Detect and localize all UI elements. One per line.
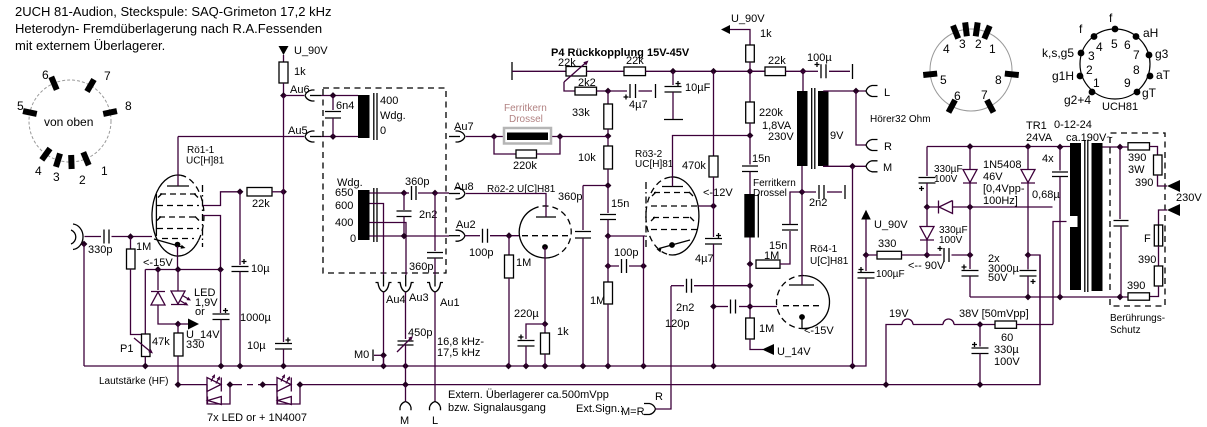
svg-text:ca.190V~: ca.190V~ <box>1066 132 1113 144</box>
LED chain bus wire <box>178 255 1040 385</box>
svg-text:Rö1-1: Rö1-1 <box>187 145 215 156</box>
node Au2 grid <box>506 232 513 239</box>
svg-text:L: L <box>884 87 890 99</box>
node g2/1000u <box>217 266 224 273</box>
node M <box>849 163 856 170</box>
svg-text:L: L <box>432 415 438 427</box>
wire anode Rö1 to Au5 line <box>177 137 179 187</box>
svg-text:33k: 33k <box>572 107 590 119</box>
bus junction x=608 <box>605 363 612 370</box>
svg-text:390: 390 <box>1127 280 1145 292</box>
svg-text:100p: 100p <box>469 247 493 259</box>
capacitor 3000µ first <box>969 255 971 269</box>
svg-text:330: 330 <box>878 238 896 250</box>
capacitor 100p (Au2 grid) <box>465 235 480 237</box>
svg-text:400: 400 <box>380 95 398 107</box>
wire 330p to grid node <box>112 236 153 238</box>
svg-text:TR1: TR1 <box>1026 120 1047 132</box>
U_90V arrow top <box>721 25 730 34</box>
tube Rö4-1 U[C]H81 envelope <box>801 276 829 329</box>
svg-text:mit externem Überlagerer.: mit externem Überlagerer. <box>15 38 165 53</box>
svg-text:1k: 1k <box>294 66 306 78</box>
svg-text:M: M <box>883 162 892 174</box>
230V arrow top <box>1167 180 1180 192</box>
svg-text:10µF: 10µF <box>685 82 711 94</box>
svg-text:220k: 220k <box>513 160 537 172</box>
wire 360p node to 10k node <box>583 185 608 187</box>
svg-text:3: 3 <box>959 37 966 51</box>
node 100p left <box>605 263 612 270</box>
U_90V output arrow <box>861 210 871 220</box>
svg-text:100V: 100V <box>939 235 963 246</box>
svg-text:F: F <box>1144 233 1151 245</box>
svg-text:4: 4 <box>35 164 42 178</box>
node 3000µ2 top <box>1025 252 1032 259</box>
svg-text:6: 6 <box>1124 38 1131 52</box>
svg-text:bzw. Signalausgang: bzw. Signalausgang <box>448 402 546 414</box>
svg-text:U_14V: U_14V <box>777 346 811 358</box>
bus junction x=240 <box>237 363 244 370</box>
svg-text:Heterodyn- Fremdüberlagerung n: Heterodyn- Fremdüberlagerung nach R.A.Fe… <box>15 21 322 36</box>
svg-text:100µF: 100µF <box>876 269 905 280</box>
svg-text:gT: gT <box>1142 86 1157 100</box>
grid row Rö4 <box>783 305 820 307</box>
diode D1 <box>967 143 974 150</box>
capacitor 360p to Au8 <box>404 192 409 194</box>
svg-text:1k: 1k <box>760 28 772 40</box>
svg-text:g3: g3 <box>1155 47 1169 61</box>
wire L to R <box>856 91 866 145</box>
svg-text:1M: 1M <box>590 295 605 307</box>
wire 22k to nodes <box>646 70 766 72</box>
anode bar Rö2 <box>536 216 556 218</box>
node 120p left <box>710 303 717 310</box>
svg-text:Wdg.: Wdg. <box>380 110 406 122</box>
svg-text:7: 7 <box>981 88 988 102</box>
antenna pickup coil <box>71 224 83 250</box>
bus junction x=713.5 <box>710 363 717 370</box>
svg-text:Au3: Au3 <box>409 292 429 304</box>
winding top (400 Wdg) <box>358 95 370 138</box>
svg-text:9V: 9V <box>830 130 844 142</box>
svg-text:M=R: M=R <box>621 406 645 418</box>
ground bus wire <box>84 281 866 366</box>
jack R (Hörer) <box>866 140 878 151</box>
bus junction x=283.5 <box>280 363 287 370</box>
svg-text:or: or <box>195 306 205 318</box>
bus junction x=852.5 <box>849 363 856 370</box>
TR1 primary winding <box>1070 143 1081 290</box>
svg-text:9: 9 <box>1124 76 1131 90</box>
svg-text:U_90V: U_90V <box>874 219 908 231</box>
svg-text:6: 6 <box>42 68 49 82</box>
capacitor 10µF with chassis bar <box>672 71 674 85</box>
coil connector top view (von oben) <box>29 80 111 162</box>
resistor 22k (third) <box>750 70 765 72</box>
diode (protection) <box>157 270 159 291</box>
svg-text:6: 6 <box>954 89 961 103</box>
svg-text:<-12V: <-12V <box>703 187 733 199</box>
resistor 330 (filter) <box>877 251 902 259</box>
node bridge right <box>967 252 974 259</box>
capacitor 330µ 100V <box>979 325 981 347</box>
svg-text:22k: 22k <box>558 57 576 69</box>
jack M output <box>400 402 411 411</box>
svg-text:8: 8 <box>125 99 132 113</box>
capacitor across secondary <box>1119 147 1121 219</box>
capacitor 6n4 <box>332 96 334 111</box>
TR1 tap notch <box>1067 216 1078 227</box>
wire pot right to 22k <box>587 70 625 72</box>
node 1M left <box>747 261 754 268</box>
node 100p right <box>640 263 647 270</box>
wire antenna down to ground bus <box>83 244 85 366</box>
svg-text:10µ: 10µ <box>251 263 270 275</box>
jack Ext.Sign <box>644 404 656 415</box>
svg-text:360p: 360p <box>405 176 429 188</box>
node Rö4 anode / 2n2 <box>799 189 806 196</box>
svg-text:0-12-24: 0-12-24 <box>1054 119 1092 131</box>
wire Rö3 g to 470k node <box>699 205 714 207</box>
node drossel right <box>557 133 564 140</box>
svg-text:1M: 1M <box>516 257 531 269</box>
svg-text:22k: 22k <box>626 55 644 67</box>
svg-text:22k: 22k <box>252 198 270 210</box>
node drossel left <box>491 133 498 140</box>
svg-text:2n2: 2n2 <box>676 302 694 314</box>
svg-text:360p: 360p <box>409 261 433 273</box>
grid rows Rö1 <box>160 193 196 195</box>
node 2k2/33k <box>605 88 612 95</box>
node U90V/330 <box>863 252 870 259</box>
svg-text:M0: M0 <box>354 349 369 361</box>
svg-text:390: 390 <box>1138 254 1156 266</box>
svg-text:Au6: Au6 <box>290 84 310 96</box>
tube Rö1-1 UC[H]81 envelope <box>152 175 199 256</box>
LED 1,9V <box>177 270 179 292</box>
svg-text:4x: 4x <box>1042 153 1054 165</box>
svg-text:330p: 330p <box>88 244 112 256</box>
svg-text:Au7: Au7 <box>454 121 474 133</box>
resistor 1M (Au2) <box>508 236 510 255</box>
resistor 330 <box>177 324 179 333</box>
wire Au8 to Rö2 anode <box>466 194 546 218</box>
node 450p bus crossings <box>402 381 409 388</box>
node lower bus psu <box>883 381 890 388</box>
svg-text:2UCH 81-Audion, Steckspule: SA: 2UCH 81-Audion, Steckspule: SAQ-Grimeton… <box>15 4 331 19</box>
svg-text:U_90V: U_90V <box>294 45 328 57</box>
terminal bar 2n2 <box>844 185 846 199</box>
wire Au6 to coupling winding <box>321 95 358 97</box>
wire Ext.Sign to R line <box>656 286 672 409</box>
cathode Rö2 <box>542 244 548 250</box>
capacitor 2n2 (650-0) <box>403 193 405 210</box>
svg-text:0: 0 <box>380 125 386 137</box>
resistor 220k <box>749 71 751 102</box>
node 360p/Au1 <box>432 190 439 197</box>
grid rows Rö3 <box>654 192 691 194</box>
resistor 1M (horizontal) <box>756 260 780 268</box>
resistor 33k <box>607 91 609 104</box>
svg-text:1: 1 <box>101 164 108 178</box>
svg-text:Au1: Au1 <box>440 297 460 309</box>
resistor 1k (cathode) <box>544 324 546 333</box>
wire Au1 down to L <box>434 292 436 402</box>
node LED bottom <box>175 321 182 328</box>
svg-text:19V: 19V <box>889 308 909 320</box>
capacitor 15n (grid col) <box>607 186 609 214</box>
wire x750 down <box>749 264 751 318</box>
node 120p right <box>747 303 754 310</box>
capacitor 4µ7 (Rö3 g) <box>713 206 715 237</box>
svg-text:2k2: 2k2 <box>578 77 596 89</box>
jack Au8 <box>449 193 460 195</box>
anode bar Rö4 <box>789 284 814 286</box>
svg-text:15n: 15n <box>752 153 770 165</box>
node 100µ <box>800 68 807 75</box>
wire Rö1 plate2 to 22k <box>203 192 240 206</box>
resistor 1M grid leak <box>130 237 132 249</box>
PSU top rail <box>927 146 1070 148</box>
tube Rö3-2 UC[H]81 envelope <box>669 177 699 255</box>
svg-text:UC[H]81: UC[H]81 <box>635 159 674 170</box>
node LED top <box>175 266 182 273</box>
jack Au7 <box>449 136 460 138</box>
svg-text:7x LED or + 1N4007: 7x LED or + 1N4007 <box>207 412 307 424</box>
capacitor 15n (anode) <box>749 136 751 165</box>
svg-text:Extern. Überlagerer ca.500mVp: Extern. Überlagerer ca.500mVpp <box>448 389 609 401</box>
node bridge left <box>924 252 931 259</box>
resistor 220k (parallel) <box>494 137 516 155</box>
bus junction x=383.5 <box>380 363 387 370</box>
resistor 10k <box>607 136 609 146</box>
svg-text:24VA: 24VA <box>1026 132 1053 144</box>
node D1 bottom <box>967 204 974 211</box>
svg-text:[0,4Vpp-: [0,4Vpp- <box>983 183 1025 195</box>
Ferritkern Drossel highlighted <box>504 128 551 144</box>
svg-text:4µ7: 4µ7 <box>695 253 714 265</box>
svg-text:UCH81: UCH81 <box>1102 101 1138 113</box>
svg-text:400: 400 <box>335 217 353 229</box>
resistor 60 <box>995 321 1017 328</box>
wire 1M to 15n stub <box>780 231 790 264</box>
wire to ground drop <box>1028 255 1040 385</box>
svg-text:7: 7 <box>1133 48 1140 62</box>
wire secondary to L jack <box>823 90 866 92</box>
wire down <box>607 236 609 282</box>
node cathode RC <box>542 321 549 328</box>
svg-text:aT: aT <box>1156 68 1171 82</box>
resistor 470k <box>713 71 715 156</box>
svg-text:1M: 1M <box>136 241 151 253</box>
node rail <box>1025 294 1032 301</box>
wire to Au8 <box>435 192 449 194</box>
svg-text:Ferritkern: Ferritkern <box>504 103 547 114</box>
LED pair 2 <box>259 381 266 388</box>
TR1 core <box>1085 140 1088 292</box>
anode bar Rö3 <box>662 186 683 188</box>
resistor 1M (x608) <box>604 282 613 304</box>
node diode top <box>155 266 162 273</box>
230V arrow bottom <box>1167 204 1180 216</box>
svg-text:0: 0 <box>350 233 356 245</box>
terminal bar 100µ <box>852 64 854 79</box>
plug-in coil dashed box <box>323 88 446 273</box>
svg-text:Drossel: Drossel <box>509 114 543 125</box>
svg-text:Schutz: Schutz <box>1110 325 1141 336</box>
capacitor 1000µ <box>220 270 222 314</box>
node 10k bottom <box>605 182 612 189</box>
wire U90V node <box>865 220 867 256</box>
svg-text:g2+4: g2+4 <box>1064 93 1091 107</box>
cathode Rö3 <box>659 240 690 249</box>
trimmer arrow <box>397 338 411 352</box>
capacitor 10µ (22k left) <box>239 192 241 265</box>
svg-text:von oben: von oben <box>44 115 93 129</box>
output transformer 230V/9V windings <box>797 91 808 166</box>
node LED-bus left <box>175 381 182 388</box>
svg-text:1000µ: 1000µ <box>240 312 271 324</box>
bus junction x=526 <box>523 363 530 370</box>
svg-text:38V [50mVpp]: 38V [50mVpp] <box>959 308 1029 320</box>
wire to Rö3 cathode side <box>608 235 645 237</box>
resistor 390 (vertical bottom) <box>1158 246 1160 266</box>
jack Au6 <box>284 95 305 97</box>
potentiometer P1 47k <box>144 270 146 335</box>
U_90V rail down / capacitor 10µ second <box>283 192 285 342</box>
svg-text:2: 2 <box>1086 63 1093 77</box>
svg-text:Au8: Au8 <box>454 181 474 193</box>
capacitor (90V coupling) <box>944 248 949 262</box>
wire Rö3 anode to 220k node <box>673 136 751 187</box>
wire Au5 to Rö1 anode <box>178 136 304 138</box>
trimmer 450p <box>398 341 414 345</box>
svg-text:1M: 1M <box>764 250 779 262</box>
jack Au2 <box>449 235 460 237</box>
resistor 2k2 <box>575 87 597 95</box>
svg-text:390: 390 <box>1135 177 1153 189</box>
svg-text:g1H: g1H <box>1052 69 1074 83</box>
U_14V arrow (Rö4) <box>750 339 763 350</box>
bus junction x=405.5 <box>402 363 409 370</box>
svg-text:100V: 100V <box>994 356 1020 368</box>
potentiometer P4 22k <box>566 67 587 77</box>
svg-text:50V: 50V <box>988 272 1008 284</box>
bus junction x=583 <box>580 363 587 370</box>
svg-text:330: 330 <box>186 339 204 351</box>
svg-text:Lautstärke (HF): Lautstärke (HF) <box>99 376 168 387</box>
svg-text:47k: 47k <box>152 336 170 348</box>
node Au6 <box>280 92 287 99</box>
wire Rö4 anode up to transformer <box>801 192 803 285</box>
svg-text:360p: 360p <box>558 191 582 203</box>
coil connector mirrored view <box>930 29 1012 111</box>
node 22k left <box>237 188 244 195</box>
tube Rö2-2 U[C]H81 <box>519 209 559 258</box>
UCH81 pinout diagram <box>1080 29 1150 99</box>
capacitor 330p <box>104 230 109 244</box>
svg-text:120p: 120p <box>665 318 689 330</box>
svg-text:<-15V: <-15V <box>804 325 834 337</box>
node -12V <box>710 203 717 210</box>
resistor 22k <box>247 188 272 197</box>
node diode row left <box>924 204 931 211</box>
svg-text:3: 3 <box>1088 49 1095 63</box>
svg-text:220µ: 220µ <box>514 308 539 320</box>
jack L output <box>430 402 441 411</box>
grid line Rö2 <box>522 235 570 237</box>
svg-text:3: 3 <box>53 170 60 184</box>
capacitor 2n2 (R input) <box>694 285 750 287</box>
svg-text:8: 8 <box>995 73 1002 87</box>
svg-text:3W: 3W <box>1128 164 1145 176</box>
svg-text:Rö4-1: Rö4-1 <box>810 244 838 255</box>
svg-text:Au2: Au2 <box>456 219 476 231</box>
node 6n4 top <box>330 92 337 99</box>
wire Rö1 g2 to -15V rail <box>203 216 221 270</box>
resistor 22k (second) <box>624 67 646 76</box>
svg-text:7: 7 <box>104 69 111 83</box>
svg-text:17,5 kHz: 17,5 kHz <box>437 347 480 359</box>
capacitor 330µF first <box>926 147 928 177</box>
resistor 1k <box>283 55 285 62</box>
node 33k bottom <box>605 133 612 140</box>
svg-text:U[C]H81: U[C]H81 <box>810 256 849 267</box>
jack Au3 <box>405 275 407 287</box>
M0 terminal <box>372 350 374 362</box>
svg-text:390: 390 <box>1128 152 1146 164</box>
tap 0 wire <box>370 235 450 237</box>
node 6n4 bottom <box>330 133 337 140</box>
svg-text:Au4: Au4 <box>386 294 406 306</box>
capacitor 100p (Rö3) <box>622 259 627 273</box>
bus junction x=221 <box>218 363 225 370</box>
svg-text:4µ7: 4µ7 <box>629 99 648 111</box>
winding bottom (650/600/400/0) <box>358 190 370 240</box>
node TR1 primary top <box>1057 144 1064 151</box>
svg-text:100V: 100V <box>934 174 958 185</box>
node antenna <box>81 241 88 248</box>
bus junction x=545 <box>542 363 549 370</box>
svg-text:Au5: Au5 <box>288 125 308 137</box>
node 330µ top <box>977 321 984 328</box>
anode bar Rö1 <box>167 185 189 187</box>
bus junction x=643.5 <box>640 363 647 370</box>
svg-text:0,68µ: 0,68µ <box>1032 189 1060 201</box>
TR1 secondary winding <box>1092 143 1103 291</box>
node 22k right <box>280 188 287 195</box>
svg-text:Drossel: Drossel <box>753 188 787 199</box>
jack M (Hörer) <box>866 161 878 172</box>
jack Au4 <box>383 275 385 287</box>
node tap650 <box>401 190 408 197</box>
svg-text:600: 600 <box>335 200 353 212</box>
grid1 internal connection Rö1 <box>155 194 157 236</box>
svg-text:230V: 230V <box>768 131 794 143</box>
svg-text:Hörer32 Ohm: Hörer32 Ohm <box>870 114 931 125</box>
svg-text:1M: 1M <box>759 323 774 335</box>
resistor 1k (anode supply) <box>746 45 755 62</box>
capacitor 0,68µ <box>1059 147 1061 171</box>
svg-text:100Hz]: 100Hz] <box>983 195 1018 207</box>
capacitor 4µ7 (feedback) <box>608 90 627 92</box>
svg-text:R: R <box>884 141 892 153</box>
resistor 1M (Rö4 grid) <box>746 318 755 339</box>
resistor 390 3W <box>1128 143 1150 150</box>
bus junction x=508.5 <box>505 363 512 370</box>
svg-text:15n: 15n <box>611 198 629 210</box>
svg-text:100p: 100p <box>614 247 638 259</box>
